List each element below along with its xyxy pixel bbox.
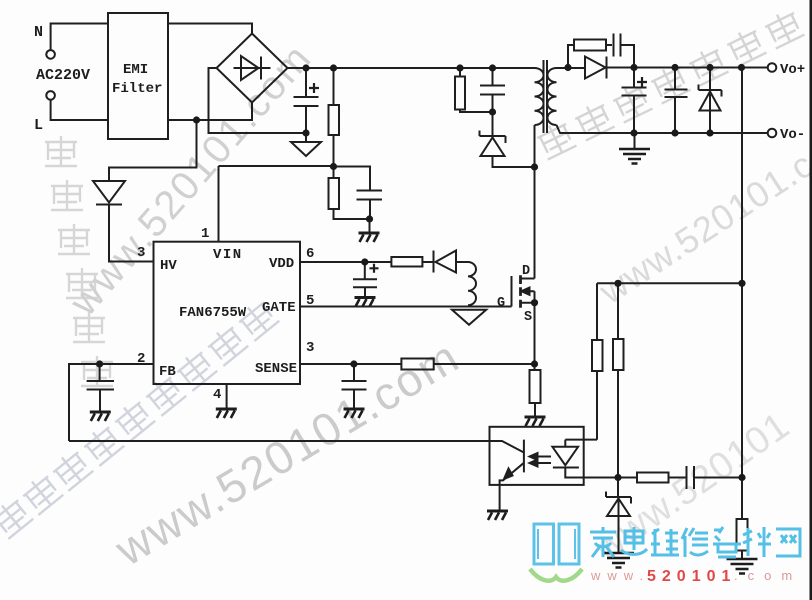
svg-text:Filter: Filter [112,81,162,97]
svg-text:D: D [522,264,530,279]
svg-text:FB: FB [159,364,176,380]
svg-text:GATE: GATE [262,300,296,316]
svg-text:SENSE: SENSE [255,361,297,377]
svg-text:VIN: VIN [213,247,243,263]
svg-text:S: S [524,310,532,325]
svg-text:N: N [34,24,43,41]
svg-text:3: 3 [306,340,314,356]
svg-text:EMI: EMI [123,62,148,78]
svg-text:G: G [497,296,505,311]
svg-text:FAN6755W: FAN6755W [179,305,247,321]
svg-text:L: L [34,117,43,134]
svg-text:520101: 520101 [647,568,736,585]
svg-text:Vo+: Vo+ [780,62,805,78]
svg-text:1: 1 [201,226,209,242]
svg-text:.com: .com [734,568,802,583]
svg-text:VDD: VDD [269,256,294,272]
svg-text:5: 5 [306,293,314,309]
svg-text:3: 3 [137,245,145,261]
svg-text:4: 4 [213,387,221,403]
svg-text:www.: www. [590,568,650,583]
svg-text:6: 6 [306,246,314,262]
svg-text:2: 2 [137,351,145,367]
svg-text:AC220V: AC220V [36,67,90,84]
svg-text:HV: HV [160,258,177,274]
svg-text:Vo-: Vo- [780,127,805,143]
